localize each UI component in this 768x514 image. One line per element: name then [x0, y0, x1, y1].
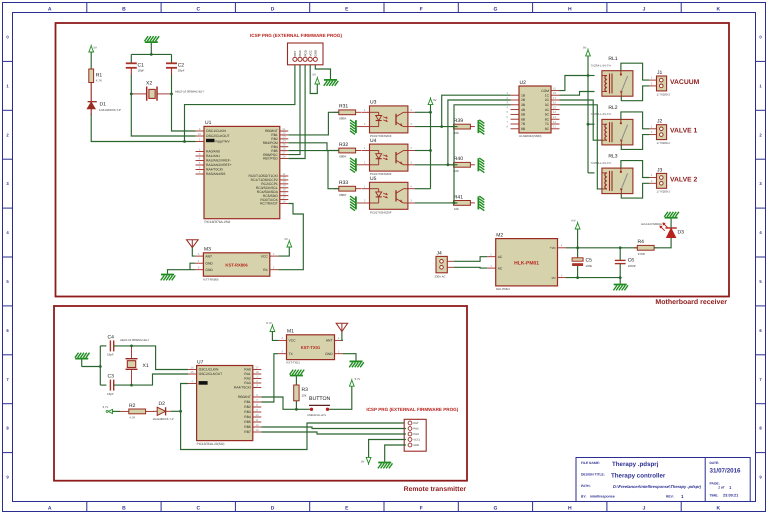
svg-text:PGD: PGD [414, 433, 420, 436]
svg-text:A: A [48, 6, 52, 12]
svg-text:TX2SA-L-5V-TH: TX2SA-L-5V-TH [590, 112, 610, 116]
frame column ticks [87, 3, 681, 512]
wire 5V rail optocouplers [415, 105, 431, 189]
svg-text:1N4148WX3-T-P: 1N4148WX3-T-P [99, 108, 121, 112]
svg-text:680R: 680R [339, 117, 347, 121]
svg-text:Therapy controller: Therapy controller [611, 473, 666, 480]
wire ICSP GND to ground [385, 445, 406, 462]
power flag 3.7V (button) [349, 377, 360, 386]
svg-text:ANT: ANT [205, 254, 212, 258]
wire ground to R3 [295, 376, 297, 385]
connector ICSP programming header (transmitter) [404, 419, 426, 451]
resistor R41 [449, 194, 475, 211]
svg-text:OSC2/CLKOUT: OSC2/CLKOUT [206, 134, 230, 138]
svg-text:100nF: 100nF [628, 264, 637, 268]
junction relay rail RL2 [587, 123, 590, 126]
wire D3 to ground [670, 219, 672, 228]
wire X1 to U7 OSC2 [132, 374, 189, 385]
wire button to 3.7V [329, 386, 352, 409]
svg-text:RB2: RB2 [244, 405, 251, 409]
svg-text:J4: J4 [437, 251, 443, 257]
wire -Vo rail [566, 277, 620, 279]
optocoupler U3 [357, 100, 415, 138]
svg-text:RL3: RL3 [608, 154, 617, 160]
wire M3 VCC to 5V [278, 247, 289, 256]
svg-text:VALVE 1: VALVE 1 [670, 128, 698, 135]
svg-text:RC7/RX/DT: RC7/RX/DT [260, 202, 278, 206]
svg-text:15: 15 [190, 370, 194, 374]
wire ground to C3 C4 [82, 346, 101, 385]
svg-text:RB5: RB5 [244, 420, 251, 424]
svg-text:U3: U3 [370, 100, 377, 106]
junction -Vo C5 [576, 276, 579, 279]
wire antenna to M3 ANT [192, 248, 195, 257]
svg-text:17: 17 [255, 365, 259, 369]
svg-text:F: F [420, 506, 423, 512]
svg-text:12: 12 [553, 120, 557, 124]
svg-text:TIME:: TIME: [710, 494, 719, 498]
ground (M1) [349, 361, 364, 367]
svg-text:ICSP PRG (EXTERNAL FIRMWARE PR: ICSP PRG (EXTERNAL FIRMWARE PROG) [366, 407, 458, 412]
power flag 5V (M3) [285, 237, 292, 247]
wire net MCLR (D1 to U1 and ICSP) [91, 65, 295, 142]
connector J2 VALVE 1 [649, 119, 697, 145]
svg-text:RB0/INT: RB0/INT [238, 395, 251, 399]
svg-text:G: G [494, 6, 498, 12]
svg-text:DATE:: DATE: [710, 461, 720, 465]
svg-text:11: 11 [255, 418, 258, 422]
svg-text:U2: U2 [520, 80, 527, 86]
svg-text:5V: 5V [94, 46, 98, 50]
svg-text:1C: 1C [545, 93, 550, 97]
svg-text:J: J [643, 6, 646, 12]
wire ICSP VCC to 5V [310, 65, 317, 94]
resistor R1 [89, 69, 103, 83]
capacitor C5 (polarized) [572, 248, 592, 278]
svg-text:7C: 7C [545, 122, 550, 126]
ground (R41) [478, 196, 484, 211]
svg-text:RX: RX [263, 268, 268, 272]
svg-text:X2: X2 [146, 81, 152, 87]
svg-text:RL1: RL1 [608, 56, 617, 62]
junction X2 right [170, 93, 173, 96]
svg-text:RB7: RB7 [244, 430, 251, 434]
svg-text:RB3: RB3 [244, 410, 251, 414]
svg-text:11: 11 [553, 125, 556, 129]
svg-text:PC817X3NSZ0F: PC817X3NSZ0F [370, 210, 392, 214]
junction R3 button [295, 408, 298, 411]
ground (U4 pin 2) [350, 158, 356, 173]
wire RL1 common to J1 pin 2 [621, 86, 649, 101]
ground (U3 pin 2) [350, 120, 356, 135]
svg-text:PGC: PGC [414, 428, 420, 431]
wire M1 TX to U7 RB1 [261, 354, 278, 402]
svg-text:+5V: +5V [571, 219, 576, 223]
wire M1 GND to ground [343, 354, 356, 361]
svg-text:100u: 100u [586, 264, 593, 268]
capacitor C3 [100, 374, 131, 396]
svg-text:1776280-2: 1776280-2 [657, 92, 671, 96]
module M3 KST-RX806 [195, 247, 278, 282]
svg-text:ABLS-16.000MHZ-B2-T: ABLS-16.000MHZ-B2-T [120, 338, 150, 342]
svg-text:RA5/AN4/SS: RA5/AN4/SS [206, 172, 226, 176]
svg-text:10: 10 [198, 132, 202, 136]
svg-text:H: H [568, 6, 572, 12]
junction MCLR net [183, 140, 186, 143]
svg-text:A: A [48, 506, 52, 512]
svg-text:BUTTON: BUTTON [309, 396, 330, 402]
wire 5V to R1 [90, 52, 92, 69]
wire RB5 to R33 [288, 151, 339, 189]
svg-text:RST: RST [293, 50, 297, 56]
svg-text:G: G [494, 506, 498, 512]
svg-text:10k: 10k [454, 207, 459, 211]
svg-text:J3: J3 [657, 167, 663, 173]
resistor R31 [333, 104, 361, 121]
svg-text:PIC16F84A-20(SO): PIC16F84A-20(SO) [197, 442, 225, 446]
svg-text:Motherboard receiver: Motherboard receiver [655, 298, 727, 306]
svg-text:OSC2/CLKOUT: OSC2/CLKOUT [199, 372, 223, 376]
svg-text:RL2: RL2 [608, 105, 617, 111]
svg-text:H: H [568, 506, 572, 512]
wire OSC2 net [131, 94, 195, 136]
wire U2 3C to RL3 coil [560, 105, 602, 189]
power flag +5V (M2 output) [571, 219, 581, 230]
svg-text:10k: 10k [302, 394, 307, 398]
svg-text:680R: 680R [339, 155, 347, 159]
junction 3B net [453, 202, 456, 205]
svg-text:R3: R3 [302, 387, 309, 393]
sub-circuit box Remote transmitter [54, 306, 467, 481]
driver IC U2 ULN2803 [506, 80, 559, 138]
svg-text:KST-TX01: KST-TX01 [301, 345, 321, 350]
svg-text:R1: R1 [96, 72, 103, 78]
resistor R40 [449, 156, 475, 173]
resistor R33 [333, 180, 361, 197]
svg-text:M1: M1 [287, 329, 294, 335]
svg-text:RA3/AN3/VREF+: RA3/AN3/VREF+ [206, 163, 232, 167]
capacitor C2 [166, 54, 185, 94]
svg-text:17: 17 [553, 96, 557, 100]
svg-text:K: K [717, 506, 721, 512]
svg-text:D3: D3 [678, 230, 685, 236]
svg-text:LRL1247W82RA: LRL1247W82RA [641, 222, 662, 226]
wire U4 emitter to U2 2B [448, 100, 511, 165]
svg-text:M2: M2 [496, 233, 503, 239]
svg-text:GND: GND [325, 352, 333, 356]
resistor R3 [294, 385, 308, 401]
svg-text:RB6: RB6 [244, 425, 251, 429]
svg-text:-Vo: -Vo [550, 276, 555, 280]
ground (crystal caps C3 C4) [75, 353, 90, 367]
wire U5 emitter to R41 [415, 202, 458, 204]
junction relay rail RL1 [587, 74, 590, 77]
ground (ICSP transmitter) [378, 463, 393, 469]
svg-text:18: 18 [553, 91, 557, 95]
svg-text:AC: AC [498, 255, 503, 259]
wire U2 1C to RL1 coil [560, 92, 595, 96]
svg-text:C: C [196, 506, 200, 512]
svg-text:KST-RX806: KST-RX806 [203, 277, 219, 281]
svg-text:TX2SA-L-5V-TH: TX2SA-L-5V-TH [590, 161, 610, 165]
title block [576, 458, 750, 502]
junction 2B net [447, 163, 450, 166]
ground (M2 output) [613, 278, 628, 291]
junction +Vo C5 [576, 246, 579, 249]
svg-text:VCC: VCC [308, 50, 312, 56]
svg-text:R39: R39 [454, 118, 463, 124]
wire J4 to M2 AC [454, 257, 487, 268]
junction C3 C4 ground [99, 365, 102, 368]
resistor R39 [449, 118, 475, 135]
svg-text:R4: R4 [638, 239, 645, 245]
svg-text:BY:: BY: [581, 495, 586, 499]
wire U4 emitter to R40 [415, 164, 458, 166]
ground (D3) [664, 212, 679, 218]
svg-text:D: D [271, 506, 275, 512]
wire X1 to U7 OSC1 [132, 346, 189, 370]
svg-text:RA4/T0CKI: RA4/T0CKI [206, 168, 223, 172]
wire OSC1 net [172, 94, 196, 131]
power flag 5V (ICSP receiver) [313, 73, 320, 85]
svg-text:B: B [122, 506, 126, 512]
capacitor C4 [100, 334, 131, 356]
svg-text:RA2/AN2/VREF-: RA2/AN2/VREF- [206, 159, 231, 163]
junction ground rail [150, 53, 153, 56]
ground (M3) [161, 275, 176, 281]
svg-text:AC: AC [498, 266, 503, 270]
wire U1 RC7 to M3 RX [278, 204, 303, 270]
svg-text:VCC1: VCC1 [414, 439, 421, 442]
svg-text:5V: 5V [313, 73, 317, 77]
svg-text:B: B [122, 6, 126, 12]
wire ICSP VCC1 to 5V [369, 440, 406, 458]
svg-text:VACUUM: VACUUM [670, 79, 700, 86]
svg-text:13: 13 [255, 428, 259, 432]
svg-text:ULN2803A(SMD): ULN2803A(SMD) [519, 134, 542, 138]
svg-text:D1: D1 [100, 102, 107, 108]
svg-text:680R: 680R [339, 193, 347, 197]
svg-text:1776280-2: 1776280-2 [657, 141, 671, 145]
relay RL2 [590, 105, 633, 145]
svg-text:18pF: 18pF [178, 69, 185, 73]
wire M3 GND to ground [168, 263, 195, 273]
svg-text:13: 13 [553, 115, 557, 119]
junction opto rail U3 [429, 111, 432, 114]
svg-text:KMR421G-LFS: KMR421G-LFS [308, 414, 327, 417]
connector J4 230V AC [435, 251, 455, 279]
svg-text:28: 28 [282, 154, 286, 158]
wire ICSP PGD to RB7 [288, 65, 305, 159]
svg-text:4.7K: 4.7K [129, 416, 135, 420]
svg-text:5V: 5V [361, 460, 365, 464]
svg-text:1 of: 1 of [718, 486, 725, 490]
wire D2 to MCLR net [171, 410, 181, 412]
svg-text:4.7K: 4.7K [96, 79, 102, 83]
svg-text:J2: J2 [657, 119, 663, 125]
power flag 3.7V (R2) [103, 405, 113, 414]
svg-text:M3: M3 [204, 247, 211, 253]
wire U2 2C to RL2 coil [560, 100, 602, 140]
wire RL2 common to J2 pin 2 [621, 135, 649, 150]
connector ICSP programming header (receiver) [288, 43, 324, 65]
connector J1 VACUUM [649, 70, 699, 96]
svg-text:OSC1/CLKIN: OSC1/CLKIN [206, 129, 226, 133]
svg-text:KST-RX806: KST-RX806 [225, 262, 248, 267]
svg-text:C4: C4 [108, 334, 115, 340]
svg-text:5V: 5V [285, 237, 289, 241]
svg-text:RA1/AN1: RA1/AN1 [206, 154, 220, 158]
svg-text:18pF: 18pF [138, 69, 145, 73]
svg-text:10k: 10k [454, 131, 459, 135]
svg-text:10k: 10k [454, 169, 459, 173]
junction opto rail U4 [429, 149, 432, 152]
svg-text:U5: U5 [370, 176, 377, 182]
svg-text:16pF: 16pF [107, 392, 114, 396]
svg-text:VCC: VCC [261, 254, 269, 258]
sub-circuit box Motherboard receiver [56, 23, 730, 297]
wire ICSP PGC to RB6 [288, 65, 300, 155]
svg-text:Remote transmitter: Remote transmitter [404, 486, 467, 493]
svg-text:DESIGN TITLE:: DESIGN TITLE: [581, 473, 605, 477]
microcontroller U1 PIC16F876A [196, 120, 289, 224]
svg-text:K: K [717, 6, 721, 12]
svg-text:FILE NAME:: FILE NAME: [581, 461, 600, 465]
optocoupler U5 [357, 176, 415, 214]
junction X1 bottom [130, 384, 133, 387]
wire 5V rail relays [588, 56, 595, 173]
svg-text:C: C [196, 6, 200, 12]
wire R1 to D1 [90, 83, 92, 102]
capacitor C6 [615, 248, 637, 278]
svg-text:F: F [420, 6, 423, 12]
svg-text:RB1: RB1 [244, 400, 251, 404]
wire RL3 NO contact to J3 pin 1 [621, 161, 650, 178]
wire R3 to button [295, 401, 297, 410]
svg-text:5V: 5V [433, 98, 437, 102]
svg-text:31/07/2016: 31/07/2016 [710, 468, 742, 475]
svg-text:3.7V: 3.7V [355, 377, 361, 381]
junction -Vo ground [619, 276, 622, 279]
svg-text:23:09:21: 23:09:21 [723, 494, 738, 498]
svg-text:18: 18 [255, 370, 259, 374]
ground (R40) [478, 158, 484, 173]
power flag 5V (optocouplers) [428, 97, 436, 105]
svg-text:10: 10 [255, 413, 259, 417]
connector J3 VALVE 2 [649, 167, 697, 193]
svg-text:R40: R40 [454, 156, 463, 162]
wire U7 RB6 to ICSP PGC [261, 427, 406, 429]
svg-text:PGC: PGC [298, 50, 302, 56]
svg-text:16pF: 16pF [107, 353, 114, 357]
wire U7 MCLR to ICSP RST [181, 384, 406, 450]
wire U2 COM to 5V [560, 76, 589, 91]
LED D3 [641, 222, 684, 238]
svg-text:R2: R2 [129, 403, 136, 409]
wire 3.7V to M1 VCC [272, 332, 278, 341]
ground (R39) [478, 120, 484, 135]
svg-text:RA1: RA1 [244, 372, 251, 376]
svg-text:RB7/PGD: RB7/PGD [263, 157, 278, 161]
power flag 5V (relays) [583, 46, 590, 56]
wire RL3 common to J3 pin 2 [621, 183, 649, 198]
svg-text:OSC1/CLKIN: OSC1/CLKIN [199, 368, 219, 372]
wire +5V output rail [566, 229, 637, 248]
svg-text:12: 12 [255, 423, 259, 427]
svg-text:GND: GND [205, 268, 213, 272]
svg-text:PIC16F876A-I/SO: PIC16F876A-I/SO [205, 220, 231, 224]
svg-text:RA3: RA3 [244, 381, 251, 385]
svg-text:U4: U4 [370, 138, 377, 144]
svg-text:R31: R31 [339, 104, 348, 110]
svg-text:D: D [271, 6, 275, 12]
svg-text:R33: R33 [339, 180, 348, 186]
wire RB3 to R32 [288, 143, 339, 151]
svg-text:R41: R41 [454, 194, 463, 200]
wire ICSP GND [315, 65, 330, 79]
wire U5 emitter to U2 3B [454, 105, 511, 203]
svg-text:270R: 270R [638, 252, 646, 256]
svg-text:C5: C5 [586, 258, 593, 264]
svg-text:5V: 5V [583, 46, 587, 50]
wire R4 to D3 [654, 238, 671, 248]
ground (crystal caps C1 C2) [145, 36, 160, 54]
svg-text:Therapy .pdsprj: Therapy .pdsprj [612, 461, 659, 468]
ground (U5 pin 2) [350, 196, 356, 211]
svg-text:VALVE 2: VALVE 2 [670, 176, 698, 183]
junction X2 left [130, 93, 133, 96]
svg-text:U7: U7 [197, 359, 204, 365]
svg-text:ABLS-16.000MHZ-B2-T: ABLS-16.000MHZ-B2-T [175, 89, 205, 93]
svg-text:15: 15 [553, 105, 557, 109]
svg-text:J1: J1 [657, 70, 663, 76]
svg-text:VCC: VCC [289, 339, 297, 343]
svg-text:X1: X1 [143, 363, 149, 369]
svg-text:RA2: RA2 [244, 377, 251, 381]
svg-text:RA0/AN0: RA0/AN0 [206, 150, 220, 154]
svg-text:230V AC: 230V AC [435, 274, 446, 278]
frame row ticks [3, 61, 766, 452]
wire U3 emitter to U2 1B [442, 95, 511, 126]
wire RB1 to R31 [288, 112, 339, 135]
svg-text:J: J [643, 506, 646, 512]
wire U3 emitter to R39 [415, 126, 458, 128]
svg-text:RA4/T0CKI: RA4/T0CKI [234, 386, 251, 390]
svg-text:GND: GND [205, 261, 213, 265]
svg-text:4C: 4C [545, 108, 550, 112]
svg-text:8C: 8C [545, 127, 550, 131]
svg-text:PATH:: PATH: [581, 484, 591, 488]
svg-text:HLK-PM01: HLK-PM01 [514, 261, 539, 267]
pushbutton BUTTON [296, 396, 330, 417]
ground (ICSP receiver) [324, 80, 339, 86]
svg-text:GND: GND [414, 444, 420, 447]
svg-text:intelliresponse: intelliresponse [590, 495, 615, 499]
power flag 5V (ICSP transmitter) [361, 457, 371, 465]
svg-text:D:\Freelancer\intelliresponse\: D:\Freelancer\intelliresponse\Therapy .p… [613, 484, 702, 489]
junction 1B net [440, 125, 443, 128]
svg-text:KST-TX01: KST-TX01 [287, 361, 301, 365]
junction MCLR D2 [179, 410, 182, 413]
svg-text:COM: COM [541, 89, 549, 93]
ground (R3) [290, 370, 305, 376]
svg-text:RB4: RB4 [244, 415, 251, 419]
power flag 5V (R1 pull-up) [89, 44, 97, 52]
svg-text:RST: RST [414, 422, 419, 425]
svg-text:2C: 2C [545, 98, 550, 102]
svg-text:3.7V: 3.7V [266, 321, 272, 325]
svg-text:C6: C6 [628, 258, 635, 264]
